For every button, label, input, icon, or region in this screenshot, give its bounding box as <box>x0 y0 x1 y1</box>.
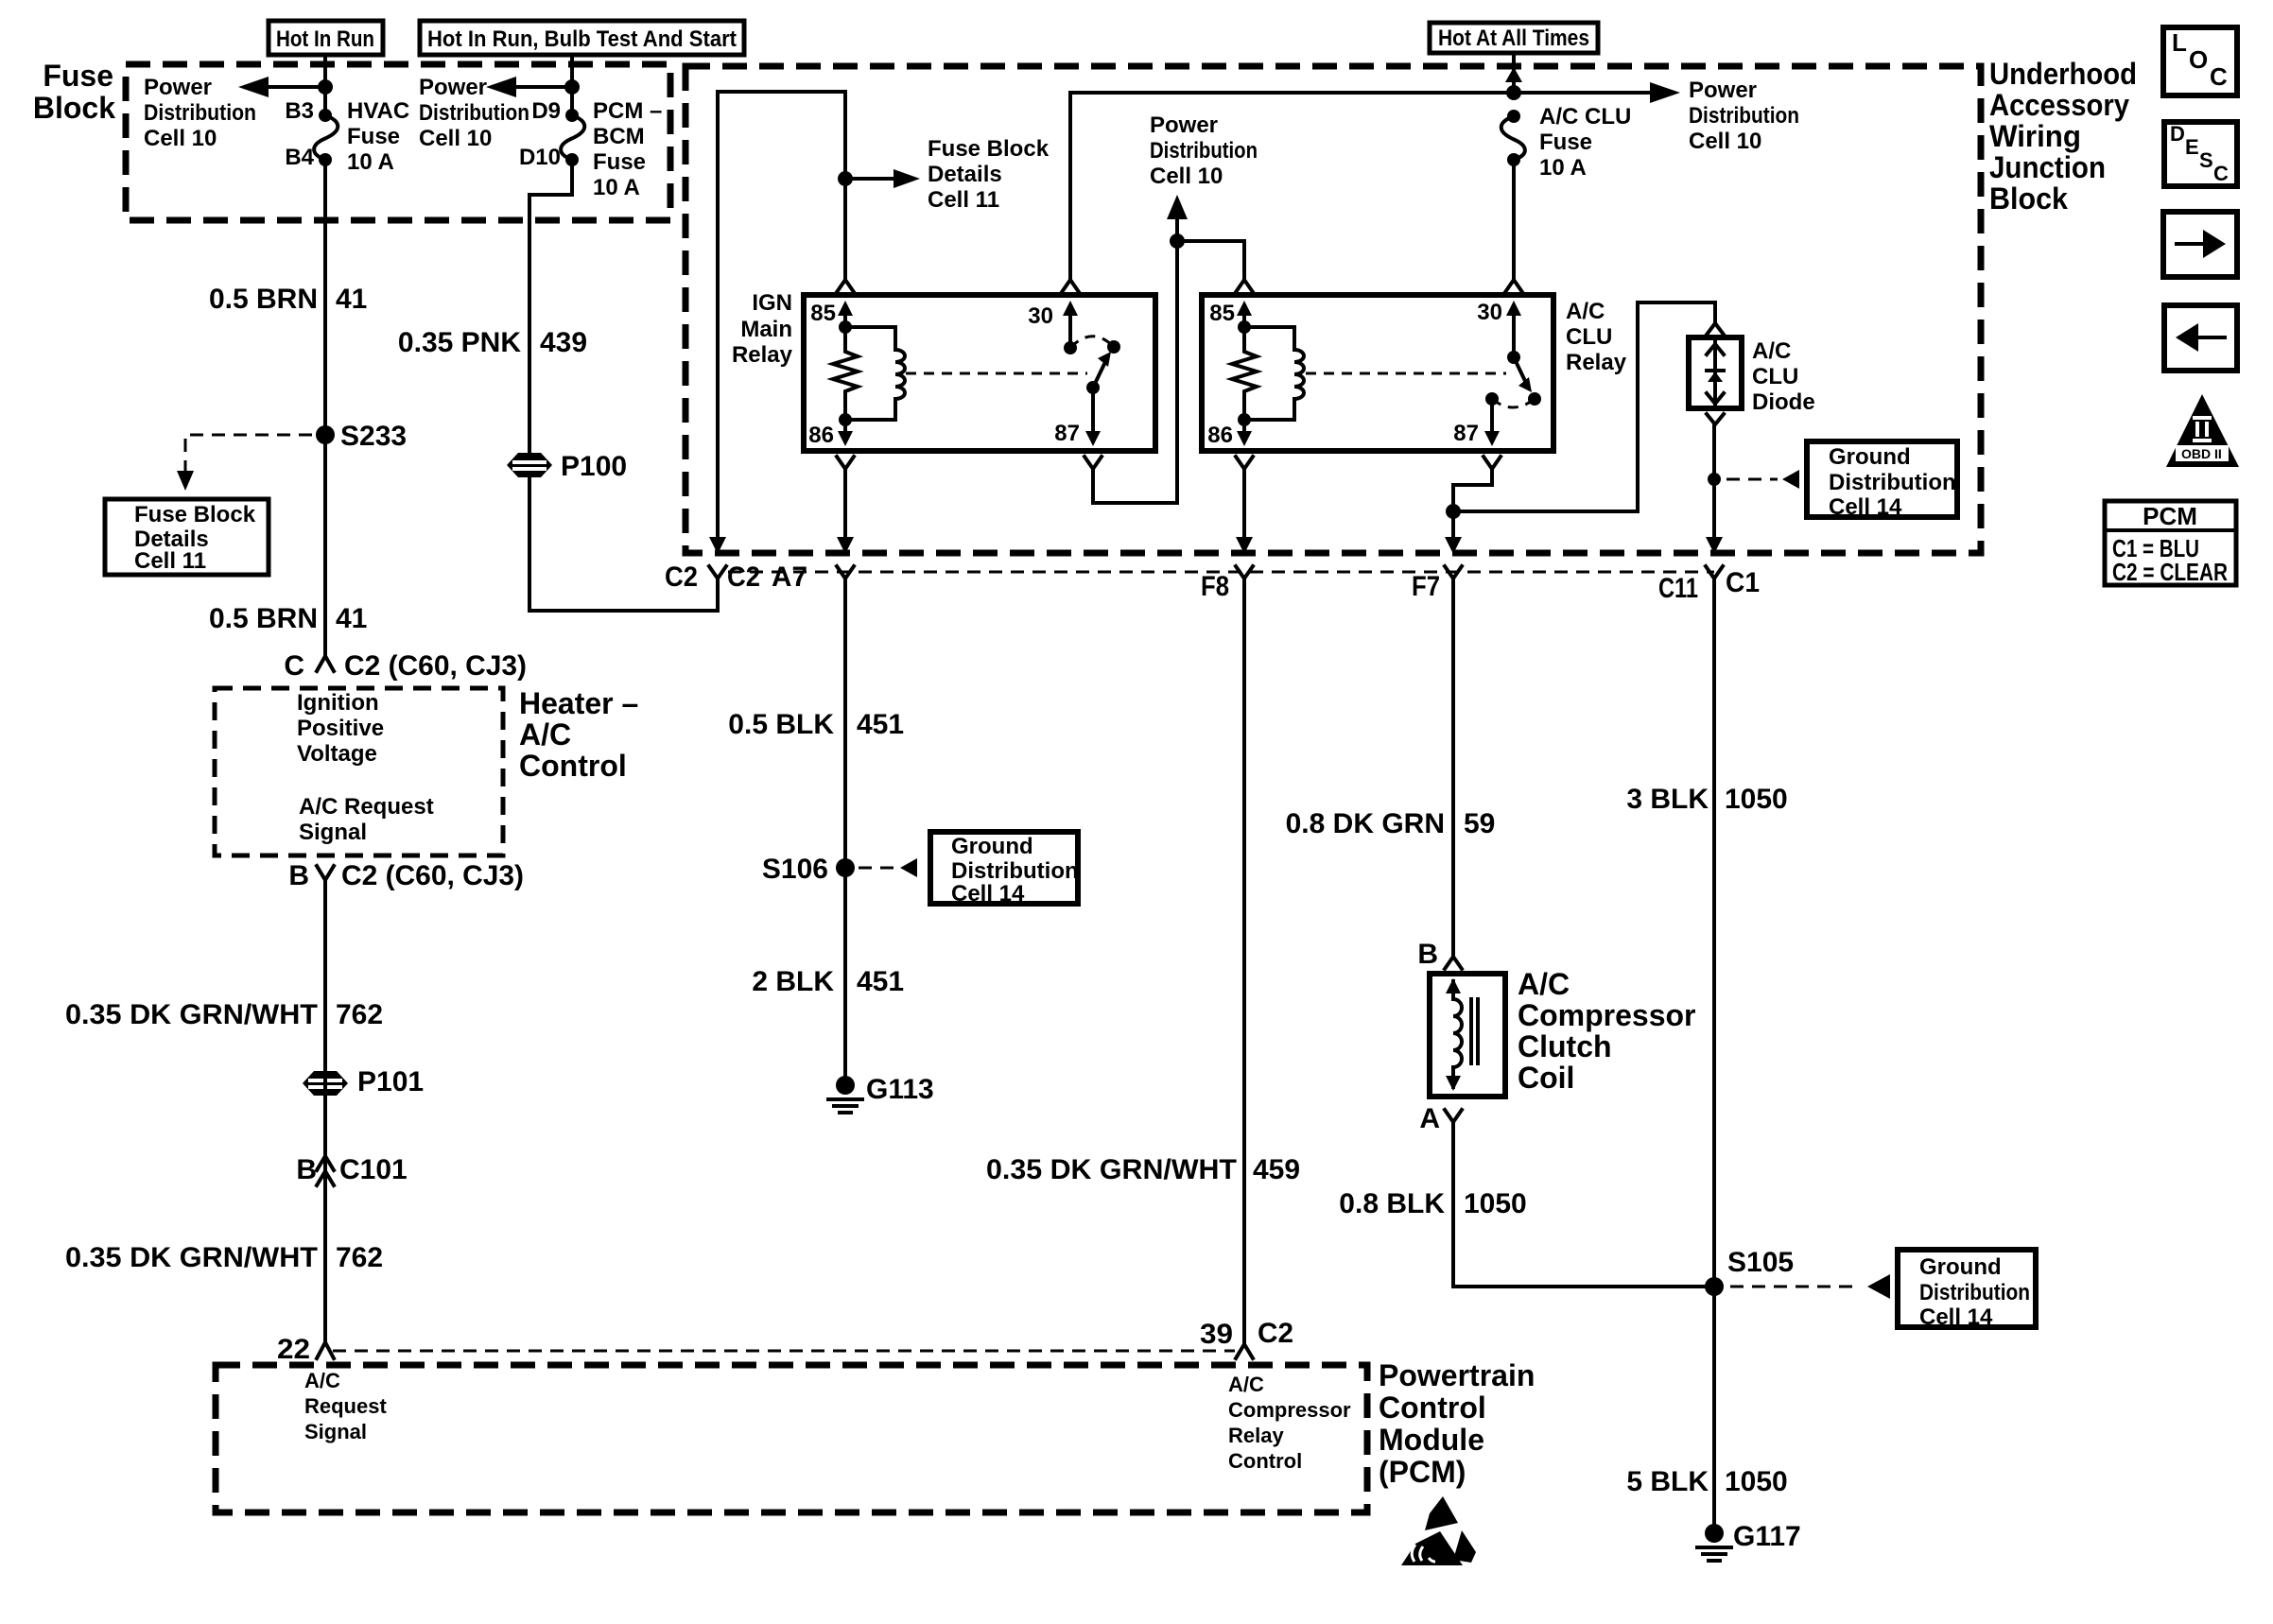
svg-text:D: D <box>2170 122 2185 146</box>
svg-text:A/C Request: A/C Request <box>299 794 434 820</box>
svg-text:Distribution: Distribution <box>951 858 1079 884</box>
pin 87 K2 <box>1453 399 1501 469</box>
connector pin 22 at PCM <box>277 1334 334 1365</box>
svg-text:Power: Power <box>419 75 487 100</box>
svg-text:Fuse Block: Fuse Block <box>928 136 1050 162</box>
svg-text:Control: Control <box>519 749 627 783</box>
svg-text:C: C <box>2210 62 2228 91</box>
relay K2 A/C CLU Relay <box>1202 295 1627 451</box>
svg-text:P101: P101 <box>357 1066 424 1097</box>
wire 0.8 DK GRN 59 from F7 to clutch coil B <box>1451 579 1455 955</box>
fuse PCM-BCM Fuse 10 A <box>519 98 662 200</box>
connector F7 <box>1412 566 1462 602</box>
label 0.35 DK GRN/WHT 762 (lower) <box>65 1242 383 1273</box>
svg-text:0.8 DK GRN: 0.8 DK GRN <box>1286 808 1445 839</box>
svg-text:Power: Power <box>144 75 212 100</box>
svg-text:Distribution: Distribution <box>144 100 256 126</box>
svg-text:B: B <box>296 1154 317 1185</box>
svg-text:S106: S106 <box>762 854 828 885</box>
wire K2 pin87 jog to F7 <box>1445 469 1492 554</box>
label 0.5 BRN 41 (lower) <box>209 603 367 634</box>
svg-text:D9: D9 <box>531 98 561 124</box>
svg-text:10 A: 10 A <box>1539 155 1587 181</box>
svg-text:41: 41 <box>336 603 367 634</box>
svg-text:A/C: A/C <box>1228 1373 1264 1396</box>
svg-text:BCM: BCM <box>593 124 645 149</box>
node left arrow legend icon <box>2164 305 2237 371</box>
powertrain control module dashed box <box>216 1365 1367 1512</box>
diode D1 A/C CLU Diode <box>1689 323 1815 415</box>
node A/C Request Signal (PCM pin 22) <box>304 1369 387 1443</box>
node Fuse Block Details Cell 11 (left box) <box>105 499 269 575</box>
label 2 BLK 451 <box>752 966 904 997</box>
svg-text:87: 87 <box>1453 421 1479 446</box>
motor coil L1 A/C Compressor Clutch Coil <box>1430 967 1696 1097</box>
svg-text:41: 41 <box>336 284 367 315</box>
svg-text:Accessory: Accessory <box>1989 88 2129 122</box>
svg-text:B4: B4 <box>285 145 314 170</box>
svg-text:0.35 DK GRN/WHT: 0.35 DK GRN/WHT <box>65 999 318 1030</box>
ground G117 <box>1697 1521 1801 1561</box>
svg-text:10 A: 10 A <box>347 149 394 175</box>
svg-text:Junction: Junction <box>1989 150 2106 184</box>
pin 85 K1 <box>810 280 854 327</box>
svg-text:22: 22 <box>277 1334 310 1365</box>
svg-text:A: A <box>1419 1103 1440 1134</box>
svg-text:86: 86 <box>808 423 834 448</box>
svg-text:Distribution: Distribution <box>1689 103 1799 129</box>
svg-text:Signal: Signal <box>304 1420 367 1443</box>
svg-text:Distribution: Distribution <box>1919 1280 2030 1305</box>
label 0.8 BLK 1050 <box>1339 1188 1526 1219</box>
svg-text:30: 30 <box>1477 300 1502 325</box>
svg-text:Hot In Run, Bulb Test And Star: Hot In Run, Bulb Test And Start <box>427 26 737 52</box>
svg-text:0.5 BRN: 0.5 BRN <box>209 603 318 634</box>
svg-text:Clutch: Clutch <box>1518 1029 1612 1063</box>
wire dashed reference from S233 <box>177 435 312 491</box>
node Hot In Run, Bulb Test And Start <box>420 21 744 55</box>
svg-text:Cell 11: Cell 11 <box>928 187 999 213</box>
svg-text:Compressor: Compressor <box>1518 998 1696 1032</box>
svg-text:Compressor: Compressor <box>1228 1398 1351 1422</box>
fuse HVAC Fuse 10 A <box>285 98 409 175</box>
svg-text:Diode: Diode <box>1752 389 1815 415</box>
svg-text:Fuse: Fuse <box>43 59 113 93</box>
svg-text:Block: Block <box>33 91 115 125</box>
node OBD II legend icon <box>2166 394 2239 467</box>
svg-text:1050: 1050 <box>1725 1466 1788 1497</box>
svg-text:G113: G113 <box>866 1074 934 1105</box>
svg-text:5 BLK: 5 BLK <box>1626 1466 1709 1497</box>
svg-text:CLU: CLU <box>1566 324 1612 350</box>
node Hot In Run <box>269 21 383 55</box>
svg-text:Cell 14: Cell 14 <box>1829 494 1902 520</box>
node LOC legend icon <box>2163 27 2237 95</box>
inductor K2 relay coil <box>1244 327 1304 420</box>
svg-text:86: 86 <box>1207 423 1233 448</box>
svg-text:Fuse: Fuse <box>1539 130 1592 155</box>
resistor K1 coil resistance <box>833 320 858 420</box>
node A/C Compressor Relay Control (PCM pin 39) <box>1228 1373 1351 1473</box>
thin dashed connector line at PCM <box>333 1350 1235 1353</box>
wire branch to A/C CLU relay pin 85 <box>1170 233 1244 279</box>
grommet P101 <box>303 1066 424 1097</box>
switch K2 contacts <box>1306 351 1541 407</box>
resistor K2 coil resistance <box>1232 320 1257 420</box>
svg-text:Relay: Relay <box>1228 1424 1284 1447</box>
connector pin A clutch coil <box>1419 1103 1462 1134</box>
underhood accessory wiring junction block dashed box <box>685 66 1981 553</box>
node power distribution cell 10 (left) <box>144 75 333 151</box>
svg-text:Power: Power <box>1689 78 1757 103</box>
svg-text:Fuse: Fuse <box>593 149 646 175</box>
ESD sensitive symbol <box>1401 1496 1476 1565</box>
svg-text:Hot At All Times: Hot At All Times <box>1438 26 1589 51</box>
splice S105 <box>1705 1247 1794 1296</box>
svg-text:Wiring: Wiring <box>1989 119 2081 153</box>
wire from A/C CLU fuse to relay pin 30 <box>1512 160 1516 281</box>
splice S233 <box>316 421 407 452</box>
switch K1 contacts <box>906 337 1120 388</box>
svg-text:0.35 DK GRN/WHT: 0.35 DK GRN/WHT <box>986 1154 1237 1185</box>
svg-text:59: 59 <box>1464 808 1495 839</box>
svg-text:CLU: CLU <box>1752 364 1798 389</box>
connector pin B clutch coil <box>1417 939 1462 970</box>
svg-text:G117: G117 <box>1733 1521 1801 1552</box>
svg-text:Fuse Block: Fuse Block <box>134 502 256 527</box>
svg-text:439: 439 <box>540 327 587 358</box>
svg-text:Control: Control <box>1379 1391 1486 1425</box>
svg-text:Heater –: Heater – <box>519 686 638 720</box>
label 0.8 DK GRN 59 <box>1286 808 1496 839</box>
svg-text:C2 (C60, CJ3): C2 (C60, CJ3) <box>344 650 527 682</box>
svg-text:S: S <box>2199 148 2213 172</box>
svg-text:Distribution: Distribution <box>1150 138 1258 164</box>
wire C2 feed path (left rectangle) <box>709 92 845 554</box>
svg-text:C2: C2 <box>727 561 760 593</box>
svg-text:F8: F8 <box>1201 571 1229 602</box>
node Hot At All Times <box>1430 23 1598 53</box>
node Underhood Accessory Wiring Junction Block label <box>1989 57 2137 216</box>
svg-text:0.35 PNK: 0.35 PNK <box>398 327 521 358</box>
connector F8 <box>1201 566 1253 602</box>
svg-text:85: 85 <box>810 301 836 326</box>
connector B C101 <box>296 1154 407 1185</box>
svg-text:C11: C11 <box>1658 573 1698 604</box>
ground G113 <box>828 1074 934 1113</box>
node ground distribution reference at C1 <box>1708 441 1957 520</box>
pin 30 K2 <box>1477 280 1522 357</box>
svg-text:P100: P100 <box>561 451 627 482</box>
svg-text:S105: S105 <box>1727 1247 1794 1278</box>
thin dashed connector line below junction block <box>728 571 1714 574</box>
wire from jog to A/C CLU diode <box>1453 302 1715 511</box>
heater A/C control dashed box <box>215 688 503 855</box>
splice S106 <box>762 854 855 885</box>
node Heater - A/C Control label <box>519 686 638 783</box>
connector C11 C1 <box>1658 566 1760 604</box>
connector C / C2 (C60, CJ3) <box>284 650 527 682</box>
svg-text:C1: C1 <box>1726 567 1760 598</box>
node Powertrain Control Module (PCM) label <box>1379 1358 1535 1489</box>
svg-text:Block: Block <box>1989 181 2068 216</box>
grommet P100 <box>507 451 627 482</box>
svg-text:B: B <box>288 860 309 891</box>
svg-text:Hot In Run: Hot In Run <box>276 26 374 52</box>
svg-text:Details: Details <box>928 162 1002 187</box>
svg-text:Distribution: Distribution <box>419 100 529 126</box>
label 3 BLK 1050 <box>1626 784 1787 815</box>
svg-text:Positive: Positive <box>297 716 384 741</box>
svg-text:Ground: Ground <box>1919 1254 2002 1280</box>
svg-text:Control: Control <box>1228 1449 1302 1473</box>
svg-text:1050: 1050 <box>1725 784 1788 815</box>
svg-text:Main: Main <box>740 317 792 342</box>
svg-text:Ground: Ground <box>951 834 1033 859</box>
node power distribution cell 10 (top right) <box>1650 78 1799 154</box>
svg-text:451: 451 <box>857 966 904 997</box>
pin 87 K1 <box>1054 381 1102 469</box>
svg-text:0.5 BRN: 0.5 BRN <box>209 284 318 315</box>
svg-text:A/C: A/C <box>519 717 571 752</box>
node power distribution cell 10 (center) <box>1150 112 1258 503</box>
svg-text:87: 87 <box>1054 421 1080 446</box>
svg-text:0.8 BLK: 0.8 BLK <box>1339 1188 1445 1219</box>
svg-text:Coil: Coil <box>1518 1061 1574 1095</box>
label 5 BLK 1050 <box>1626 1466 1787 1497</box>
svg-text:B: B <box>1417 939 1438 970</box>
svg-text:E: E <box>2185 135 2199 159</box>
svg-text:(PCM): (PCM) <box>1379 1455 1466 1489</box>
svg-text:A/C: A/C <box>1566 299 1605 324</box>
svg-text:Ground: Ground <box>1829 444 1911 470</box>
svg-text:O: O <box>2189 45 2208 74</box>
relay K1 IGN Main Relay <box>732 290 1155 451</box>
svg-text:F7: F7 <box>1412 571 1440 602</box>
wire 0.5 BLK 451 from A7 to S106 <box>843 579 847 1085</box>
svg-text:Underhood: Underhood <box>1989 57 2137 91</box>
wire 0.35 DK GRN/WHT 762 <box>323 880 327 1342</box>
svg-text:2 BLK: 2 BLK <box>752 966 834 997</box>
pin 30 K1 <box>1028 280 1079 348</box>
svg-text:C101: C101 <box>339 1154 408 1185</box>
pin 86 K1 <box>808 413 854 469</box>
svg-text:Module: Module <box>1379 1423 1484 1457</box>
label 0.35 PNK 439 <box>398 327 587 358</box>
svg-text:0.5 BLK: 0.5 BLK <box>728 709 834 740</box>
fuse block FB dashed box <box>33 59 670 220</box>
svg-text:85: 85 <box>1209 301 1235 326</box>
svg-text:Cell 10: Cell 10 <box>419 126 492 151</box>
label 0.35 DK GRN/WHT 459 <box>986 1154 1300 1185</box>
svg-text:762: 762 <box>336 1242 383 1273</box>
connector B / C2 (C60, CJ3) <box>288 860 524 891</box>
connector A7 <box>772 561 854 593</box>
pin 85 K2 <box>1209 280 1253 327</box>
node right arrow legend icon <box>2163 212 2237 277</box>
pin 86 K2 <box>1207 413 1253 469</box>
svg-text:L: L <box>2172 28 2187 57</box>
wire 0.35 PNK from D10 to P100 <box>529 160 572 454</box>
svg-text:A7: A7 <box>772 561 807 593</box>
svg-text:S233: S233 <box>340 421 407 452</box>
node ground distribution reference at S106 <box>859 832 1079 907</box>
svg-text:Distribution: Distribution <box>1829 470 1956 495</box>
wire 0.5 BRN from B4 to connector C <box>323 160 327 655</box>
svg-text:A/C CLU: A/C CLU <box>1539 104 1631 130</box>
wire 3 BLK 1050 from C1 to S105 <box>1712 579 1716 1524</box>
svg-text:Cell 10: Cell 10 <box>1689 129 1761 154</box>
node PCM connector legend <box>2105 501 2236 586</box>
svg-text:Cell 10: Cell 10 <box>144 126 217 151</box>
svg-text:Request: Request <box>304 1394 387 1418</box>
svg-text:Powertrain: Powertrain <box>1379 1358 1535 1392</box>
svg-text:C2: C2 <box>665 561 698 593</box>
svg-text:39: 39 <box>1200 1319 1233 1350</box>
wire from Hot In Run to fuse B3 <box>323 55 327 115</box>
svg-text:451: 451 <box>857 709 904 740</box>
svg-text:459: 459 <box>1253 1154 1300 1185</box>
svg-text:Power: Power <box>1150 112 1218 138</box>
svg-text:D10: D10 <box>519 145 561 170</box>
svg-text:C: C <box>284 650 304 682</box>
svg-text:Cell 11: Cell 11 <box>134 548 206 574</box>
svg-text:PCM –: PCM – <box>593 98 662 124</box>
svg-text:1050: 1050 <box>1464 1188 1527 1219</box>
svg-text:Voltage: Voltage <box>297 741 377 767</box>
svg-text:HVAC: HVAC <box>347 98 409 124</box>
svg-text:A/C: A/C <box>1752 338 1791 364</box>
connector C2 (junction block exit) <box>665 561 760 593</box>
node Fuse Block Details Cell 11 (junction block) <box>838 136 1050 213</box>
svg-text:762: 762 <box>336 999 383 1030</box>
svg-text:Ignition: Ignition <box>297 690 379 716</box>
wire top feed horizontal <box>1070 85 1657 280</box>
svg-text:Cell 10: Cell 10 <box>1150 164 1223 189</box>
connector pin 39 C2 at PCM <box>1200 1318 1293 1358</box>
node DESC legend icon <box>2164 122 2237 186</box>
wire C2 exit to P100 branch <box>529 477 718 611</box>
svg-text:Fuse: Fuse <box>347 124 400 149</box>
svg-text:Signal: Signal <box>299 820 367 845</box>
wire from Hot At All Times into junction block <box>1505 53 1522 93</box>
svg-text:A/C: A/C <box>1518 967 1570 1001</box>
svg-text:Relay: Relay <box>1566 350 1627 375</box>
svg-text:B3: B3 <box>285 98 314 124</box>
svg-text:Relay: Relay <box>732 342 793 368</box>
svg-text:Cell 14: Cell 14 <box>951 881 1025 907</box>
node ground distribution reference at S105 <box>1730 1250 2036 1330</box>
svg-text:C2: C2 <box>1258 1318 1293 1349</box>
node power distribution cell 10 (right) <box>419 55 580 151</box>
svg-text:3 BLK: 3 BLK <box>1626 784 1709 815</box>
svg-text:PCM: PCM <box>2143 502 2197 530</box>
inductor K1 relay coil <box>845 327 905 420</box>
label 0.5 BRN 41 (upper) <box>209 284 367 315</box>
wire K1 pin87 jog to power dist vertical <box>1093 469 1177 503</box>
wire K2 pin86 to F8 exit <box>1236 469 1253 554</box>
svg-text:IGN: IGN <box>752 290 792 316</box>
wire diode to C1 exit <box>1706 414 1724 554</box>
label 0.35 DK GRN/WHT 762 (upper) <box>65 999 383 1030</box>
svg-text:10 A: 10 A <box>593 175 640 200</box>
svg-text:C2 (C60, CJ3): C2 (C60, CJ3) <box>341 860 524 891</box>
svg-text:C2 = CLEAR: C2 = CLEAR <box>2112 558 2228 586</box>
svg-text:OBD II: OBD II <box>2181 446 2222 461</box>
svg-text:0.35 DK GRN/WHT: 0.35 DK GRN/WHT <box>65 1242 318 1273</box>
svg-text:30: 30 <box>1028 303 1053 329</box>
svg-text:A/C: A/C <box>304 1369 340 1392</box>
wire K1 pin86 to A7 exit <box>837 469 854 554</box>
svg-text:C: C <box>2213 162 2229 185</box>
fuse A/C CLU Fuse 10 A <box>1501 104 1632 181</box>
label 0.5 BLK 451 <box>728 709 904 740</box>
wire 0.35 DK GRN/WHT 459 from F8 to PCM pin 39 <box>1242 579 1246 1344</box>
svg-text:Cell 14: Cell 14 <box>1919 1304 1993 1330</box>
wire 0.8 BLK 1050 from coil A to S105 <box>1453 1122 1715 1287</box>
